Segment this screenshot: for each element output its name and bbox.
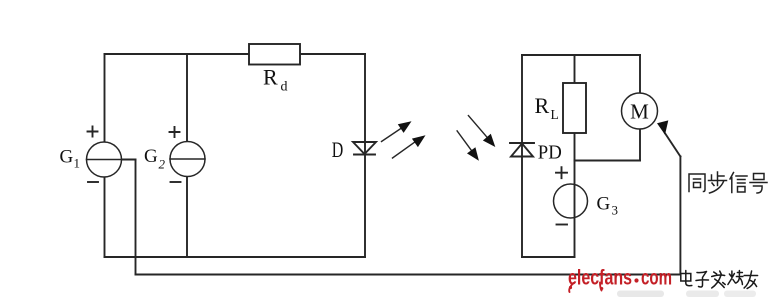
- wire right-loop top: [522, 54, 640, 56]
- watermark gray blob bottom right2: [724, 291, 756, 298]
- wire G2 branch vertical: [186, 54, 188, 257]
- diode D LED: [353, 142, 376, 154]
- wire sync tap vertical: [135, 160, 137, 275]
- wire left-loop top: [105, 53, 366, 55]
- watermark 电子发烧友: [681, 271, 758, 289]
- svg-text:1: 1: [74, 156, 81, 171]
- label RL: [535, 93, 559, 122]
- wire right-loop bottom: [522, 256, 575, 258]
- svg-text:D: D: [332, 137, 344, 162]
- label G3: [597, 194, 619, 218]
- wire motor junction horizontal: [575, 160, 641, 162]
- svg-text:PD: PD: [538, 142, 562, 164]
- svg-text:R: R: [535, 93, 550, 118]
- wire right-loop middle vertical: [574, 55, 576, 257]
- wire motor vertical: [639, 55, 641, 161]
- LED light arrow 1: [382, 127, 404, 142]
- minus sign G1: [88, 181, 98, 183]
- plus sign G3: [556, 167, 567, 178]
- LED light arrow 2: [393, 141, 418, 159]
- wire left-loop bottom: [105, 256, 366, 258]
- text sync-signal 同步信号: [689, 172, 767, 193]
- svg-text:3: 3: [612, 203, 619, 218]
- wire sync diagonal to motor: [665, 133, 681, 157]
- PD light arrow 1: [468, 116, 489, 140]
- svg-text:com: com: [641, 266, 672, 290]
- svg-text:G: G: [144, 146, 158, 167]
- label Rd: [263, 65, 288, 95]
- logo swash: [569, 283, 573, 292]
- minus sign G3: [557, 224, 568, 226]
- svg-text:2: 2: [159, 157, 166, 172]
- LED arrowhead 1: [398, 121, 412, 133]
- wire sync right vertical: [679, 157, 681, 275]
- node G1 tap: [89, 159, 136, 161]
- wire left-loop left vertical: [104, 54, 106, 257]
- svg-text:G: G: [60, 147, 74, 168]
- logo elecfans.com: [568, 266, 672, 291]
- label G2: [144, 146, 166, 172]
- resistor RL: [563, 83, 586, 133]
- photodiode PD: [510, 142, 534, 144]
- PD light arrow 2: [457, 131, 473, 153]
- resistor Rd: [249, 44, 300, 65]
- source G3: [554, 184, 588, 218]
- label G1: [60, 147, 81, 171]
- motor M: [622, 93, 658, 129]
- PD arrowhead 1: [483, 134, 495, 147]
- LED arrowhead 2: [412, 135, 426, 147]
- watermark gray blob bottom center: [617, 291, 664, 298]
- plus sign G2: [170, 127, 180, 137]
- plus sign G1: [88, 127, 98, 137]
- svg-text:R: R: [263, 65, 278, 90]
- PD arrowhead 2: [467, 147, 479, 161]
- wire left-loop right vertical: [364, 54, 366, 257]
- source G1: [87, 142, 122, 177]
- svg-text:G: G: [597, 194, 611, 215]
- svg-text:d: d: [281, 80, 288, 95]
- source G2: [170, 142, 205, 177]
- sync arrowhead at motor: [657, 120, 668, 134]
- wire right-loop left vertical: [521, 55, 523, 257]
- watermark gray blob bottom right: [686, 291, 719, 298]
- minus sign G2: [171, 181, 181, 183]
- svg-text:L: L: [551, 107, 559, 122]
- wire sync bottom horizontal: [136, 274, 681, 276]
- svg-text:M: M: [630, 99, 649, 123]
